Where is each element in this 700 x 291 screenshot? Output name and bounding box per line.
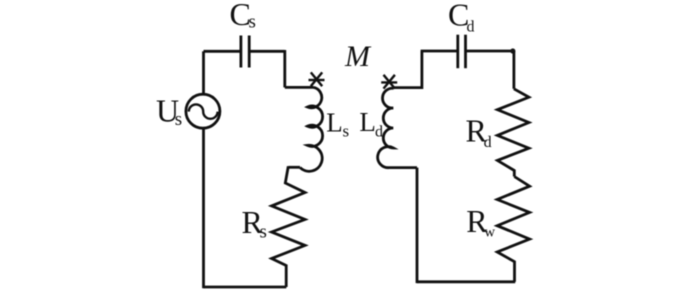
svg-text:M: M: [344, 40, 372, 73]
wire: vertical drop to Ls: [283, 50, 286, 87]
wire: vertical to Rd: [513, 51, 516, 89]
label Rw: [466, 203, 495, 240]
wire: Rd-Rw connector stub: [513, 170, 516, 177]
wire: right loop top rail (left segment): [421, 50, 458, 53]
capacitor Cd: [458, 35, 466, 68]
label Ls: [326, 108, 349, 141]
label Us: [156, 92, 182, 130]
wire: left loop bottom rail: [204, 286, 287, 289]
wire: right loop left vertical: [416, 168, 419, 284]
wire: Ls bottom to Rs top: [288, 166, 300, 169]
label M (mutual inductance): [344, 40, 372, 73]
capacitor Cs: [241, 36, 249, 68]
svg-text:L: L: [326, 108, 343, 138]
svg-text:s: s: [260, 221, 267, 242]
svg-text:w: w: [484, 224, 495, 240]
label Ld: [359, 107, 383, 140]
label Rd: [466, 112, 492, 150]
svg-text:s: s: [343, 122, 350, 141]
wire: left loop top rail (right segment): [249, 50, 285, 53]
resistor Rs: [272, 166, 305, 265]
svg-text:s: s: [249, 12, 256, 33]
wire: left loop left vertical (source bottom leg): [202, 128, 205, 288]
svg-text:L: L: [359, 107, 376, 137]
label Rs: [242, 204, 267, 243]
junction dot at top right corner: [510, 48, 515, 53]
polarity dot (asterisk) for Ld: [381, 75, 397, 89]
wire: left loop top rail (left segment): [204, 50, 241, 53]
svg-text:d: d: [484, 134, 492, 151]
inductor Ld: [378, 88, 394, 167]
resistor Rd: [497, 89, 529, 171]
svg-text:d: d: [467, 18, 475, 35]
svg-text:s: s: [175, 109, 182, 130]
wire: right loop bottom rail: [417, 280, 515, 283]
wire: Ld bottom horizontal: [389, 166, 417, 169]
wire: horizontal into Ls top: [285, 86, 314, 89]
svg-text:d: d: [375, 123, 383, 140]
wire: right loop top rail (right segment): [466, 50, 514, 53]
inductor Ls: [300, 87, 323, 171]
wire: Rs bottom stub: [285, 265, 288, 288]
label Cd: [448, 0, 475, 35]
label Cs: [230, 0, 256, 33]
wire: source top leg: [202, 51, 205, 94]
resistor Rw: [497, 177, 529, 262]
voltage source Us: [186, 94, 220, 128]
wire: Rw bottom stub: [513, 261, 516, 282]
wire: Ld top to right loop top rail: [394, 51, 422, 88]
polarity dot (asterisk) for Ls: [309, 72, 325, 86]
